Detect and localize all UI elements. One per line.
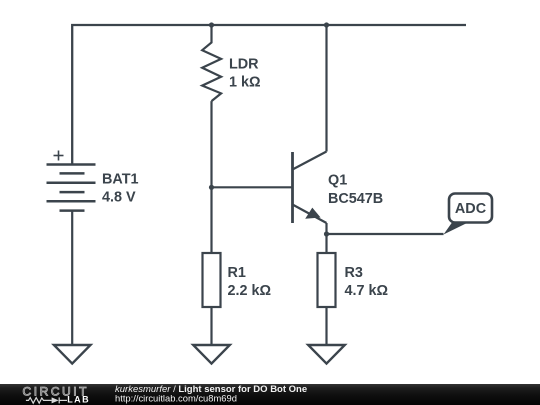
resistor R1 (box): [203, 253, 221, 307]
wire emitter down: [325, 223, 327, 234]
svg-text:LAB: LAB: [67, 395, 90, 405]
resistor LDR (zigzag): [202, 25, 221, 101]
svg-text:LDR: LDR: [229, 56, 259, 72]
svg-text:R1: R1: [228, 265, 246, 281]
wire emitter junction to R3: [325, 234, 327, 253]
svg-text:2.2 kΩ: 2.2 kΩ: [228, 283, 272, 299]
node junction collector top: [324, 22, 329, 27]
footer bar: [0, 384, 540, 405]
footer credit text: [115, 384, 307, 404]
resistor R3 (box): [318, 253, 336, 307]
ground R3: [308, 345, 345, 364]
svg-text:R3: R3: [345, 265, 363, 281]
net flag ADC: [444, 194, 493, 235]
svg-text:4.8 V: 4.8 V: [102, 189, 136, 205]
ground R1: [193, 345, 230, 364]
node base junction: [209, 185, 214, 190]
svg-text:1 kΩ: 1 kΩ: [229, 74, 261, 90]
wire emitter to ADC flag: [327, 233, 444, 235]
wire top rail: [72, 25, 466, 165]
node junction LDR top: [209, 22, 214, 27]
wire collector riser: [325, 25, 327, 152]
transistor Q1 BC547B: [293, 152, 327, 224]
wire battery to ground: [71, 211, 73, 345]
node emitter junction: [324, 231, 329, 236]
svg-text:ADC: ADC: [455, 201, 486, 217]
svg-text:BC547B: BC547B: [328, 191, 383, 207]
svg-text:BAT1: BAT1: [102, 172, 139, 188]
logo CIRCUIT LAB: [23, 385, 91, 405]
battery plus sign: [54, 151, 64, 161]
svg-text:http://circuitlab.com/cu8m69d: http://circuitlab.com/cu8m69d: [115, 393, 237, 404]
battery BAT1: [47, 165, 96, 211]
wire LDR bottom to R1: [210, 101, 212, 253]
wire R3 to ground: [325, 307, 327, 345]
ground battery: [54, 345, 91, 364]
wire base: [212, 186, 293, 188]
wire R1 to ground: [210, 307, 212, 345]
svg-text:Q1: Q1: [328, 173, 347, 189]
svg-text:4.7 kΩ: 4.7 kΩ: [345, 283, 389, 299]
